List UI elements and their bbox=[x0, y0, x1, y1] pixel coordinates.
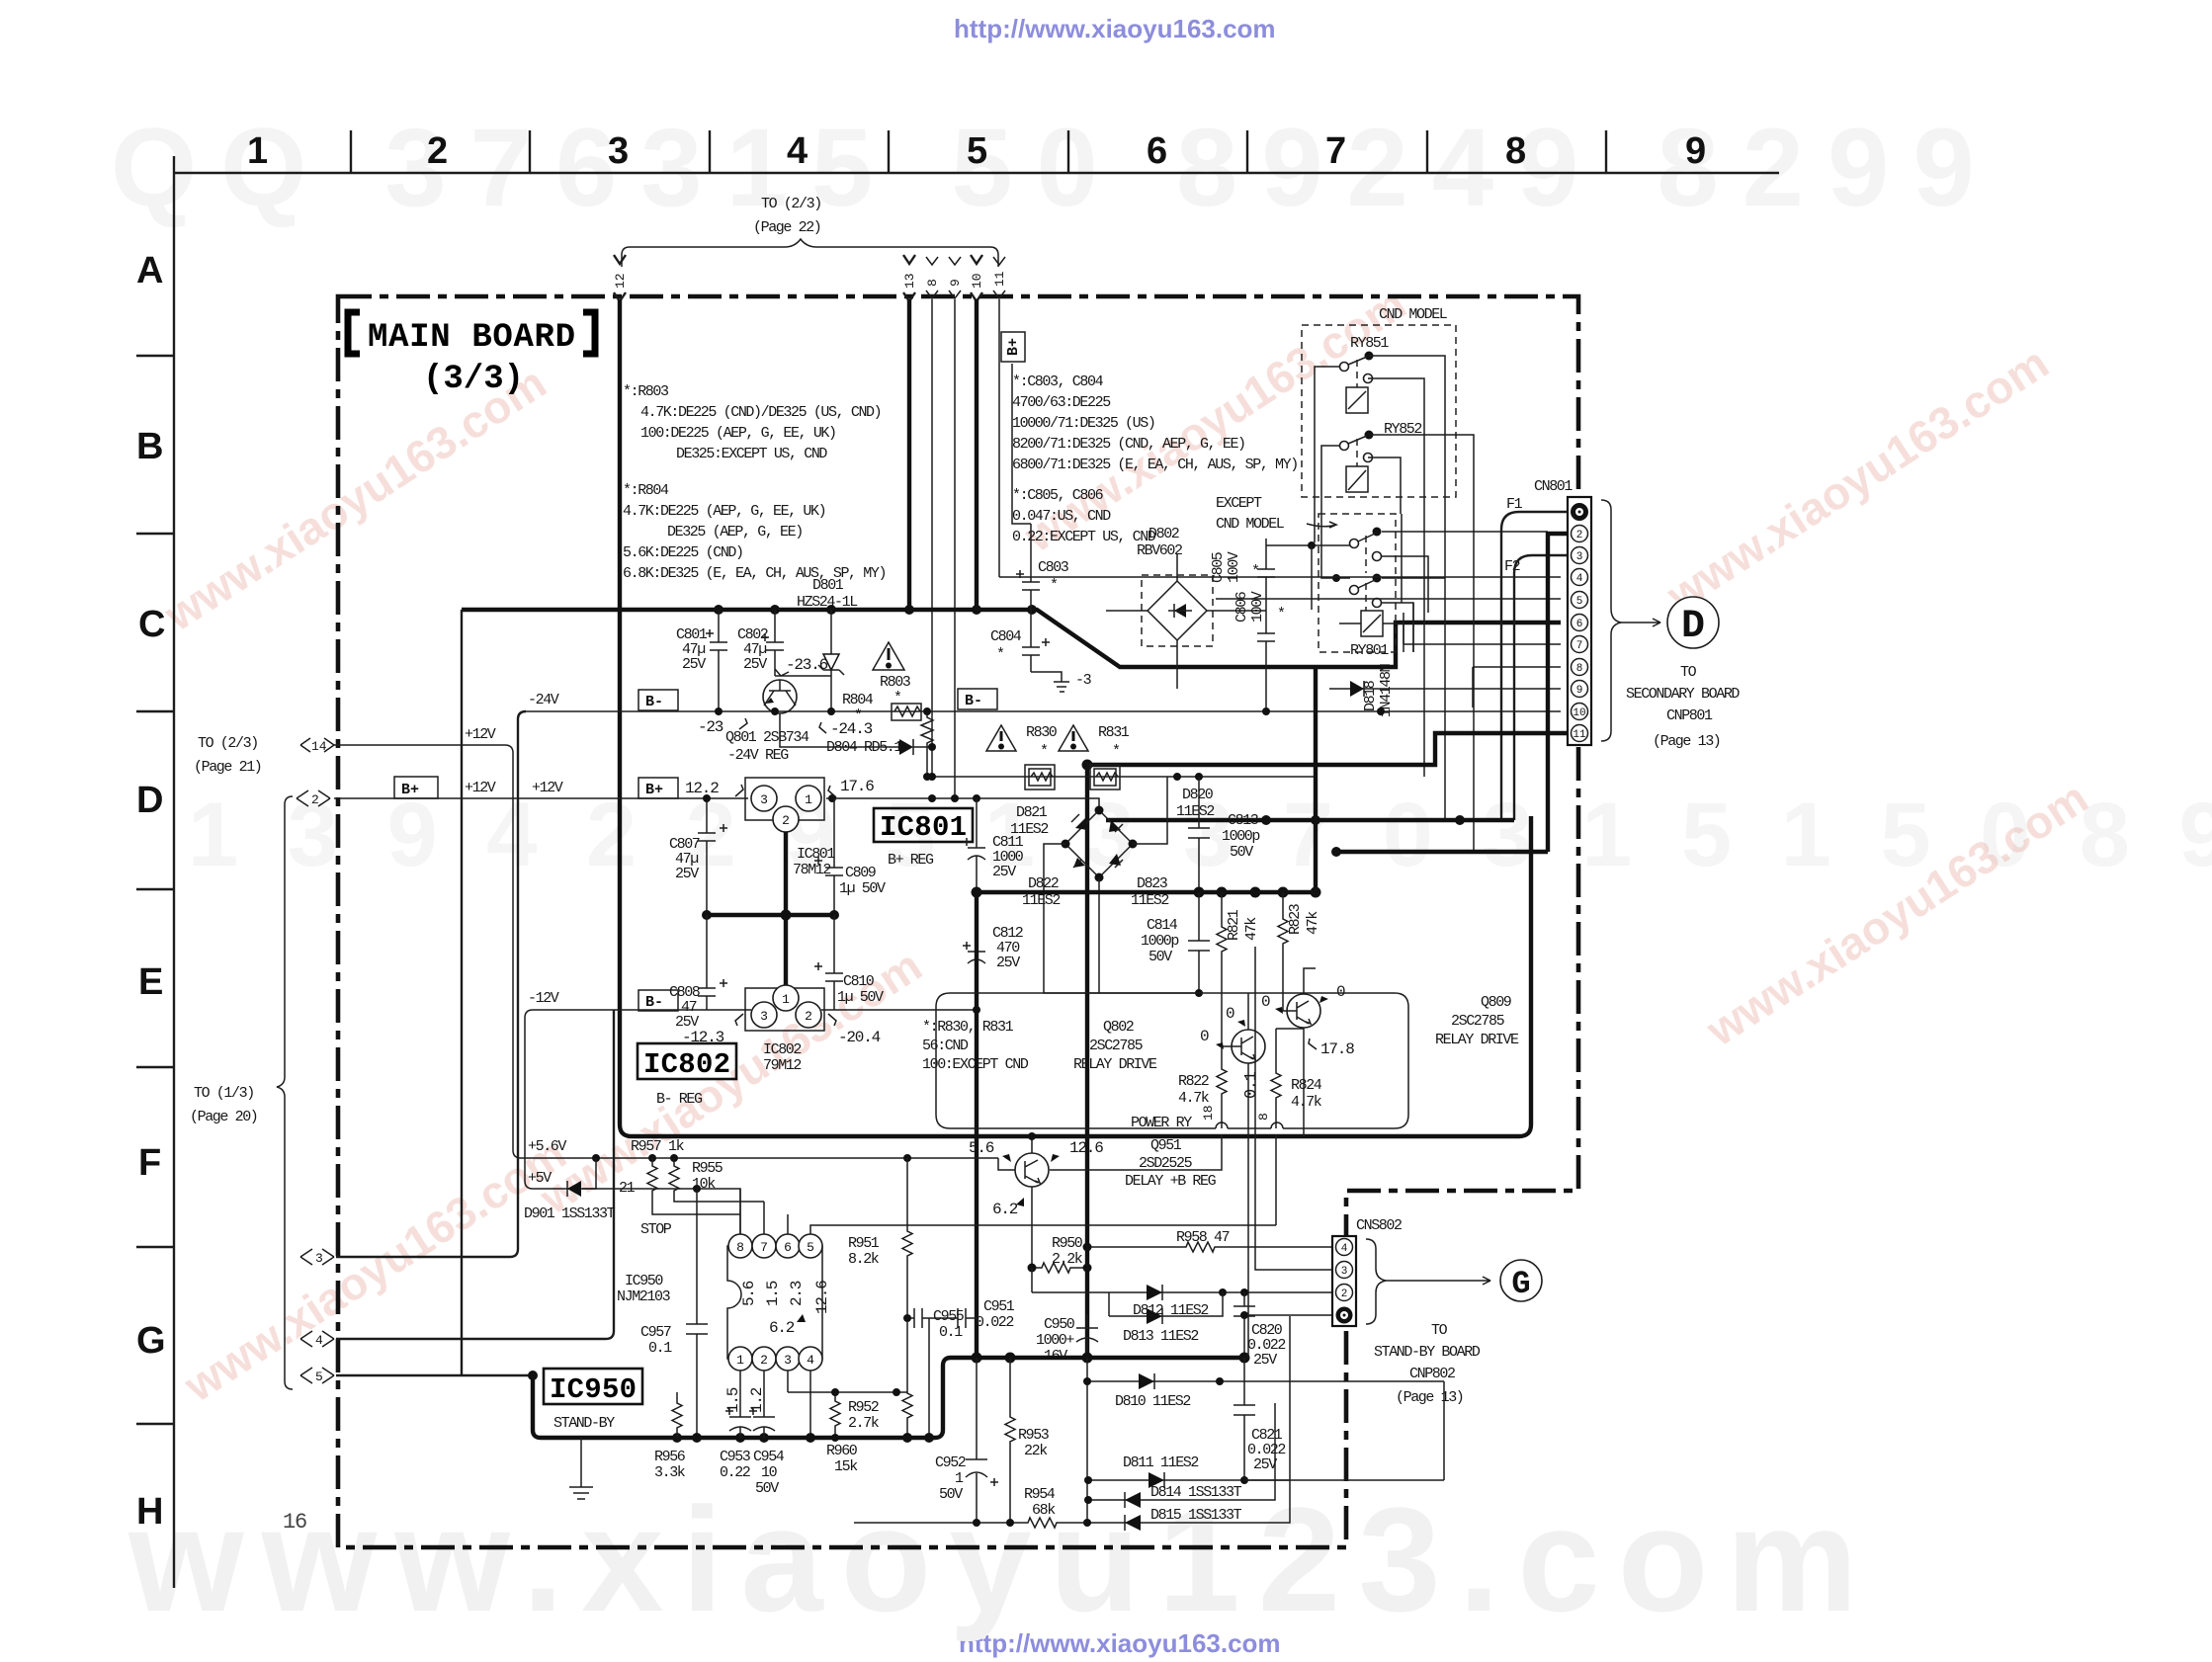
zener D801 bbox=[818, 610, 844, 711]
left arrow 14 TO (2/3) page 21 bbox=[194, 735, 334, 776]
grid column ticks bbox=[351, 130, 1606, 173]
svg-text:H: H bbox=[136, 1491, 163, 1533]
relay RY852 bbox=[1340, 421, 1422, 492]
svg-text:(Page 13): (Page 13) bbox=[1396, 1389, 1463, 1406]
svg-text:50V: 50V bbox=[1149, 949, 1172, 965]
svg-text:D802: D802 bbox=[1149, 526, 1179, 542]
svg-text:4: 4 bbox=[1341, 1243, 1348, 1255]
connector circle G bbox=[1500, 1260, 1542, 1302]
svg-text:3: 3 bbox=[784, 1353, 792, 1368]
diode D901 bbox=[524, 1158, 616, 1222]
svg-text:4: 4 bbox=[787, 130, 808, 172]
wire q951 emitter chain bbox=[1032, 1268, 1109, 1292]
svg-text:C953: C953 bbox=[720, 1449, 751, 1465]
svg-text:IC802: IC802 bbox=[643, 1048, 730, 1081]
svg-text:5: 5 bbox=[967, 130, 987, 172]
svg-text:R951: R951 bbox=[848, 1235, 880, 1252]
wire -12V out bbox=[821, 1009, 977, 1011]
wire mid bus bbox=[702, 910, 839, 921]
grid row ticks bbox=[136, 356, 174, 1424]
svg-text:POWER RY: POWER RY bbox=[1131, 1115, 1192, 1131]
svg-text:D801: D801 bbox=[812, 577, 844, 594]
svg-text:G: G bbox=[1511, 1266, 1530, 1302]
capacitor C806 bbox=[1234, 591, 1285, 715]
svg-text:21: 21 bbox=[619, 1180, 636, 1197]
svg-text:TO: TO bbox=[1680, 664, 1697, 681]
svg-text:(Page 22): (Page 22) bbox=[753, 219, 820, 236]
svg-text:(Page 21): (Page 21) bbox=[194, 759, 261, 776]
svg-text:IC950: IC950 bbox=[550, 1373, 637, 1406]
resistor R955 bbox=[669, 1158, 764, 1202]
svg-text:CND MODEL: CND MODEL bbox=[1379, 306, 1448, 323]
svg-text:R953: R953 bbox=[1018, 1427, 1050, 1444]
svg-text:5: 5 bbox=[315, 1370, 323, 1384]
svg-text:47k: 47k bbox=[1243, 917, 1260, 941]
svg-text:100V: 100V bbox=[1249, 591, 1266, 623]
svg-text:Q802: Q802 bbox=[1103, 1019, 1134, 1036]
connector CNS802 bbox=[1332, 1217, 1402, 1326]
IC801 boxed label bbox=[874, 808, 973, 869]
wire pin10 vert net10 bbox=[1085, 765, 1089, 1358]
svg-text:4.7K:DE225 (CND)/DE325 (US, CN: 4.7K:DE225 (CND)/DE325 (US, CND) bbox=[640, 404, 881, 421]
svg-text:2: 2 bbox=[805, 1009, 812, 1024]
svg-text:5.6K:DE225 (CND): 5.6K:DE225 (CND) bbox=[623, 544, 743, 561]
capacitor C812 bbox=[963, 892, 1023, 1014]
net arrow 9 bbox=[948, 257, 963, 298]
svg-text:F1: F1 bbox=[1506, 496, 1523, 513]
svg-text:6.2: 6.2 bbox=[769, 1319, 795, 1337]
svg-text:DE325:EXCEPT US, CND: DE325:EXCEPT US, CND bbox=[676, 446, 827, 462]
svg-text:10k: 10k bbox=[692, 1176, 716, 1193]
svg-text:D: D bbox=[1681, 605, 1705, 649]
svg-text:7: 7 bbox=[760, 1240, 768, 1255]
svg-text:R950: R950 bbox=[1052, 1235, 1083, 1252]
label R831 bbox=[1098, 724, 1130, 760]
bus1 thick lower bbox=[528, 1353, 1250, 1444]
svg-text:*: * bbox=[1112, 743, 1120, 760]
svg-text:(3/3): (3/3) bbox=[423, 361, 524, 398]
wire thick x988 down bbox=[975, 892, 978, 1358]
B- boxed left bbox=[638, 690, 678, 710]
svg-text:R954: R954 bbox=[1024, 1486, 1056, 1503]
svg-text:2SC2785: 2SC2785 bbox=[1089, 1038, 1144, 1054]
svg-text:A: A bbox=[136, 250, 163, 291]
wire thick x1331 bbox=[1314, 667, 1318, 892]
warning triangle R803 bbox=[873, 642, 904, 670]
svg-text:+12V: +12V bbox=[465, 726, 496, 743]
bridge rectifier D802 bbox=[1106, 526, 1266, 689]
svg-text:*:C805, C806: *:C805, C806 bbox=[1012, 487, 1104, 504]
svg-text:STAND-BY: STAND-BY bbox=[553, 1415, 615, 1432]
svg-text:R958 47: R958 47 bbox=[1176, 1229, 1230, 1246]
svg-text:6: 6 bbox=[1147, 130, 1167, 172]
svg-text:C813: C813 bbox=[1228, 812, 1259, 829]
svg-text:R821: R821 bbox=[1226, 909, 1242, 941]
svg-text:D815 1SS133T: D815 1SS133T bbox=[1150, 1507, 1242, 1524]
svg-text:C805: C805 bbox=[1210, 551, 1227, 583]
resistor R960 bbox=[788, 1388, 907, 1475]
capacitor C952 bbox=[935, 1358, 998, 1523]
svg-text:17.6: 17.6 bbox=[840, 778, 874, 795]
svg-text:*: * bbox=[996, 646, 1004, 663]
svg-text:1: 1 bbox=[247, 130, 268, 172]
value -23.6 bbox=[775, 656, 831, 676]
svg-text:5: 5 bbox=[807, 1240, 814, 1255]
net 11 wire bbox=[998, 299, 1000, 577]
IC950 boxed label bbox=[544, 1369, 642, 1432]
resistor R830 boxed bbox=[1025, 765, 1055, 789]
net arrow 10 bbox=[970, 255, 984, 301]
svg-text:EXCEPT: EXCEPT bbox=[1216, 495, 1262, 512]
svg-text:B-: B- bbox=[965, 693, 982, 709]
svg-text:R952: R952 bbox=[848, 1399, 879, 1416]
svg-text:CND MODEL: CND MODEL bbox=[1216, 516, 1285, 533]
label D823 bbox=[1131, 875, 1168, 909]
svg-text:C957: C957 bbox=[640, 1324, 671, 1341]
svg-text:*:R804: *:R804 bbox=[623, 482, 669, 499]
resistor R950 bbox=[1028, 1235, 1092, 1273]
svg-text:3: 3 bbox=[760, 792, 768, 807]
svg-text:R803: R803 bbox=[880, 674, 911, 691]
svg-text:100V: 100V bbox=[1226, 551, 1242, 583]
svg-text:11: 11 bbox=[992, 271, 1007, 287]
brace CN801 to D bbox=[1601, 500, 1660, 741]
svg-text:8200/71:DE325 (CND, AEP, G, EE: 8200/71:DE325 (CND, AEP, G, EE) bbox=[1012, 436, 1245, 453]
diode D812 bbox=[1109, 1285, 1332, 1319]
note EXCEPT CND MODEL bbox=[1216, 495, 1336, 533]
label to secondary board bbox=[1626, 664, 1740, 750]
warning triangle left bbox=[986, 725, 1016, 751]
svg-text:2SC2785: 2SC2785 bbox=[1451, 1013, 1505, 1030]
diode D815 bbox=[1118, 1316, 1290, 1531]
wire pin7 row bbox=[1404, 613, 1561, 644]
svg-text:1000+: 1000+ bbox=[1036, 1332, 1074, 1349]
wire -24V to pin10 bbox=[1329, 707, 1561, 715]
svg-text:QQ 376315 50 89249 8299: QQ 376315 50 89249 8299 bbox=[111, 106, 1999, 229]
ground main bbox=[569, 1438, 593, 1499]
svg-text:D820: D820 bbox=[1182, 787, 1214, 803]
svg-text:NJM2103: NJM2103 bbox=[617, 1288, 671, 1305]
resistor R957 bbox=[631, 1138, 740, 1214]
svg-text:R823: R823 bbox=[1287, 903, 1304, 935]
transistor Q802 label bbox=[1073, 1019, 1157, 1073]
resistor R822 bbox=[1178, 1046, 1227, 1128]
main board title bbox=[348, 312, 595, 398]
svg-text:47k: 47k bbox=[1305, 911, 1321, 935]
capacitor C957 bbox=[640, 1189, 708, 1438]
relay drive enclosure box bbox=[936, 993, 1408, 1131]
svg-text:68k: 68k bbox=[1032, 1502, 1056, 1519]
regulator IC801 bbox=[745, 778, 835, 878]
svg-text:Q809: Q809 bbox=[1481, 994, 1511, 1011]
svg-text:15k: 15k bbox=[834, 1458, 858, 1475]
svg-text:D818: D818 bbox=[1362, 680, 1379, 711]
svg-text:R831: R831 bbox=[1098, 724, 1130, 741]
resistor R958 bbox=[1083, 1229, 1333, 1252]
svg-text:2.2k: 2.2k bbox=[1052, 1251, 1083, 1268]
svg-text:R957 1k: R957 1k bbox=[631, 1138, 685, 1155]
svg-text:56:CND: 56:CND bbox=[922, 1038, 969, 1054]
svg-text:C814: C814 bbox=[1147, 917, 1178, 934]
svg-text:18: 18 bbox=[1201, 1105, 1216, 1121]
svg-text:4700/63:DE225: 4700/63:DE225 bbox=[1012, 394, 1111, 411]
capacitor C808 bbox=[669, 915, 727, 1031]
svg-text:TO (2/3): TO (2/3) bbox=[761, 196, 821, 212]
svg-text:0.1: 0.1 bbox=[939, 1324, 963, 1341]
svg-text:10: 10 bbox=[970, 273, 984, 289]
brace TO (2/3) page 22 top bbox=[622, 196, 998, 267]
left arrow 3 bbox=[300, 1249, 334, 1266]
transistor Q809 bbox=[1261, 968, 1354, 1136]
except cnd dashed box bbox=[1319, 514, 1396, 652]
relay RY851 bbox=[1340, 335, 1390, 413]
resistor R831 boxed bbox=[1090, 765, 1120, 789]
svg-text:0: 0 bbox=[1336, 983, 1345, 1001]
wire net5 bbox=[336, 1374, 533, 1376]
wire B+ row right bbox=[826, 794, 1099, 810]
svg-text:22k: 22k bbox=[1024, 1443, 1048, 1459]
svg-text:6: 6 bbox=[1576, 619, 1583, 630]
svg-text:D823: D823 bbox=[1137, 875, 1168, 892]
wire IC802 pin1 stem bbox=[784, 915, 788, 988]
warning triangle right bbox=[1059, 725, 1088, 751]
svg-text:1000p: 1000p bbox=[1222, 828, 1259, 845]
svg-text:R822: R822 bbox=[1178, 1073, 1209, 1090]
net 12 wire bbox=[620, 299, 1531, 1136]
left arrow 4 bbox=[300, 1331, 334, 1348]
svg-text:6.2: 6.2 bbox=[992, 1201, 1018, 1218]
svg-text:9: 9 bbox=[948, 279, 963, 287]
svg-text:C806: C806 bbox=[1234, 591, 1250, 623]
svg-text:3: 3 bbox=[315, 1251, 323, 1266]
wire thick y830 bbox=[1106, 815, 1514, 825]
svg-text:R960: R960 bbox=[826, 1443, 858, 1459]
svg-text:RY801: RY801 bbox=[1350, 642, 1389, 659]
svg-text:C: C bbox=[138, 604, 165, 645]
svg-text:9: 9 bbox=[1685, 130, 1706, 172]
svg-text:8: 8 bbox=[736, 1240, 744, 1255]
svg-text:R830: R830 bbox=[1026, 724, 1058, 741]
svg-text:RY851: RY851 bbox=[1350, 335, 1389, 352]
svg-text:0.1: 0.1 bbox=[1242, 1071, 1261, 1099]
capacitor C821 bbox=[1234, 1358, 1285, 1480]
svg-text:1.5: 1.5 bbox=[764, 1281, 782, 1306]
svg-text:3.3k: 3.3k bbox=[654, 1464, 686, 1481]
wire cns802 pin1 bbox=[1244, 1314, 1332, 1316]
svg-text:R804: R804 bbox=[842, 692, 874, 708]
left arrow 2 with B+ tag bbox=[297, 777, 438, 807]
resistor R821 bbox=[1217, 892, 1260, 1036]
svg-text:E: E bbox=[138, 961, 163, 1003]
resistor R951 bbox=[848, 1158, 912, 1314]
wire cns802 pin3 bbox=[1255, 947, 1332, 1270]
svg-text:25V: 25V bbox=[743, 656, 767, 673]
svg-text:4.7k: 4.7k bbox=[1291, 1094, 1322, 1111]
svg-text:12: 12 bbox=[613, 273, 628, 289]
svg-text:2: 2 bbox=[760, 1353, 768, 1368]
value -20.4 bbox=[828, 1014, 881, 1046]
svg-text:STOP: STOP bbox=[640, 1221, 672, 1238]
capacitor C805 bbox=[1210, 539, 1275, 611]
svg-text:B-: B- bbox=[645, 994, 663, 1011]
svg-text:C950: C950 bbox=[1044, 1316, 1075, 1333]
label to stand-by board bbox=[1374, 1322, 1481, 1406]
svg-text:B- REG: B- REG bbox=[656, 1091, 703, 1108]
svg-text:11ES2: 11ES2 bbox=[1022, 892, 1060, 909]
label R830 bbox=[1026, 724, 1058, 760]
capacitor C820 bbox=[1234, 1292, 1285, 1369]
svg-text:2.3: 2.3 bbox=[788, 1281, 806, 1306]
IC950 chip bbox=[724, 1234, 831, 1413]
svg-text:B: B bbox=[136, 426, 163, 467]
net 9 wire bbox=[954, 299, 956, 798]
diode D810 bbox=[1083, 1373, 1444, 1410]
svg-text:-24.3: -24.3 bbox=[830, 720, 873, 738]
capacitor C811 bbox=[963, 798, 1024, 892]
svg-text:25V: 25V bbox=[1253, 1352, 1277, 1369]
wire net4 bbox=[336, 1010, 614, 1339]
svg-text:2: 2 bbox=[427, 130, 448, 172]
ground -3 bbox=[1031, 672, 1092, 692]
svg-text:2: 2 bbox=[1341, 1288, 1348, 1300]
B- boxed mid bbox=[638, 990, 678, 1011]
svg-text:-24V: -24V bbox=[528, 692, 559, 708]
brace TO (1/3) page 20 bbox=[190, 796, 293, 1389]
wire r822 hop chain bbox=[1050, 1134, 1222, 1170]
svg-text:8: 8 bbox=[925, 279, 940, 287]
svg-text:1000p: 1000p bbox=[1141, 933, 1178, 950]
svg-text:10: 10 bbox=[761, 1464, 778, 1481]
svg-text:10: 10 bbox=[1573, 707, 1585, 719]
svg-text:6: 6 bbox=[784, 1240, 792, 1255]
svg-text:0.22: 0.22 bbox=[720, 1464, 750, 1481]
svg-text:2: 2 bbox=[782, 813, 790, 828]
svg-text:D901 1SS133T: D901 1SS133T bbox=[524, 1205, 616, 1222]
svg-text:-20.4: -20.4 bbox=[838, 1029, 881, 1046]
wire -12V row bbox=[525, 990, 751, 1189]
svg-text:C809: C809 bbox=[845, 865, 876, 881]
wire IC801 pin2 stem bbox=[784, 832, 788, 915]
svg-text:*:C803, C804: *:C803, C804 bbox=[1012, 374, 1104, 390]
svg-text:2.7k: 2.7k bbox=[848, 1415, 880, 1432]
wire -24V row bbox=[526, 692, 1329, 738]
resistor R952 bbox=[848, 1322, 912, 1438]
svg-text:11ES2: 11ES2 bbox=[1131, 892, 1168, 909]
svg-text:25V: 25V bbox=[996, 955, 1020, 971]
capacitor C813 bbox=[1188, 777, 1259, 892]
svg-text:7: 7 bbox=[1325, 130, 1346, 172]
wire pin4 row bbox=[999, 576, 1561, 578]
value 17.6 bbox=[828, 778, 874, 797]
capacitor C951 bbox=[929, 1298, 1015, 1331]
svg-text:5.6: 5.6 bbox=[969, 1139, 994, 1157]
svg-text:4.7k: 4.7k bbox=[1178, 1090, 1210, 1107]
svg-text:50V: 50V bbox=[1230, 844, 1253, 861]
wire c821 to d811 link bbox=[1244, 1479, 1290, 1481]
value -12.3 bbox=[682, 1014, 743, 1046]
svg-text:*: * bbox=[1050, 577, 1058, 594]
svg-text:http://www.xiaoyu163.com: http://www.xiaoyu163.com bbox=[954, 14, 1276, 43]
svg-text:www.xiaoyu123.com: www.xiaoyu123.com bbox=[128, 1476, 1876, 1642]
svg-text:4: 4 bbox=[315, 1333, 323, 1348]
svg-text:R956: R956 bbox=[654, 1449, 686, 1465]
svg-text:TO (1/3): TO (1/3) bbox=[194, 1085, 254, 1102]
resistor R953 bbox=[1005, 1358, 1050, 1523]
capacitor C955 bbox=[903, 1308, 965, 1438]
note R830 R831 bbox=[922, 1019, 1029, 1073]
B+ rotated tag bbox=[1001, 332, 1025, 362]
svg-text:5.6: 5.6 bbox=[740, 1281, 758, 1306]
svg-text:-3: -3 bbox=[1075, 672, 1092, 689]
IC802 boxed label bbox=[638, 1043, 736, 1108]
svg-text:25V: 25V bbox=[675, 866, 699, 882]
net arrow 11 bbox=[992, 257, 1007, 298]
svg-text:6.8K:DE325 (E, EA, CH, AUS, SP: 6.8K:DE325 (E, EA, CH, AUS, SP, MY) bbox=[623, 565, 886, 582]
svg-text:+5V: +5V bbox=[528, 1170, 552, 1187]
svg-text:C952: C952 bbox=[935, 1454, 966, 1471]
capacitor C809 bbox=[814, 798, 886, 915]
svg-text:12.2: 12.2 bbox=[685, 780, 719, 797]
svg-text:C804: C804 bbox=[990, 628, 1022, 645]
svg-text:4.7K:DE225 (AEP, G, EE, UK): 4.7K:DE225 (AEP, G, EE, UK) bbox=[623, 503, 825, 520]
relay switch S1 bbox=[1350, 528, 1382, 561]
svg-text:0: 0 bbox=[1200, 1028, 1209, 1045]
svg-text:DE325 (AEP, G, EE): DE325 (AEP, G, EE) bbox=[667, 524, 803, 540]
B+ boxed mid bbox=[638, 778, 678, 798]
svg-text:16: 16 bbox=[283, 1510, 306, 1535]
svg-text:4: 4 bbox=[1576, 573, 1583, 585]
transistor Q801 bbox=[725, 680, 809, 764]
resistor R954 bbox=[854, 1486, 1118, 1528]
relay RY801 bbox=[1350, 611, 1389, 659]
svg-text:2: 2 bbox=[311, 792, 319, 807]
capacitor C953 bbox=[720, 1407, 751, 1481]
svg-text:+12V: +12V bbox=[532, 780, 563, 796]
svg-text:8: 8 bbox=[1576, 663, 1583, 675]
svg-text:10000/71:DE325 (US): 10000/71:DE325 (US) bbox=[1012, 415, 1154, 432]
label D820 bbox=[1176, 787, 1214, 820]
svg-text:*: * bbox=[854, 707, 862, 724]
svg-text:*: * bbox=[1277, 606, 1285, 623]
transistor Q809 label bbox=[1435, 994, 1519, 1048]
svg-text:*:R803: *:R803 bbox=[623, 383, 669, 400]
capacitor C802 bbox=[737, 610, 784, 676]
svg-text:6800/71:DE325 (E, EA, CH, AUS,: 6800/71:DE325 (E, EA, CH, AUS, SP, MY) bbox=[1012, 457, 1298, 473]
svg-text:IC802: IC802 bbox=[763, 1041, 801, 1058]
svg-text:0.047:US, CND: 0.047:US, CND bbox=[1012, 508, 1111, 525]
net 13 wire bbox=[907, 299, 911, 610]
svg-text:RELAY DRIVE: RELAY DRIVE bbox=[1073, 1056, 1157, 1073]
relay area wires bbox=[1266, 532, 1548, 652]
svg-text:C803: C803 bbox=[1038, 559, 1069, 576]
label D822 bbox=[1022, 875, 1060, 909]
diode D813 bbox=[1109, 1292, 1223, 1345]
svg-text:B+ REG: B+ REG bbox=[888, 852, 934, 869]
svg-text:R824: R824 bbox=[1291, 1077, 1322, 1094]
svg-text:TO: TO bbox=[1431, 1322, 1448, 1339]
svg-text:2: 2 bbox=[1576, 530, 1583, 541]
svg-text:D811 11ES2: D811 11ES2 bbox=[1123, 1454, 1198, 1471]
diode D818 bbox=[1329, 663, 1561, 717]
wire q951 base emitter bbox=[998, 1132, 1036, 1268]
svg-text:C951: C951 bbox=[983, 1298, 1015, 1315]
grid ruler left line bbox=[173, 156, 175, 1588]
svg-text:50V: 50V bbox=[755, 1480, 779, 1497]
svg-text:78M12: 78M12 bbox=[793, 862, 830, 878]
capacitor C801 bbox=[676, 610, 727, 711]
svg-text:CNP802: CNP802 bbox=[1409, 1366, 1455, 1382]
svg-text:11ES2: 11ES2 bbox=[1176, 803, 1214, 820]
